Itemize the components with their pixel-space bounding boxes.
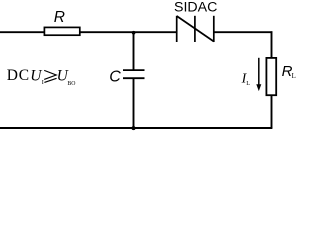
- svg-text:BO: BO: [67, 81, 75, 87]
- svg-text:L: L: [246, 80, 250, 87]
- svg-text:L: L: [292, 73, 296, 80]
- svg-text:I: I: [42, 79, 44, 86]
- svg-text:DC: DC: [7, 67, 30, 84]
- svg-text:C: C: [109, 69, 121, 86]
- svg-text:R: R: [54, 9, 65, 26]
- svg-text:SIDAC: SIDAC: [174, 0, 217, 15]
